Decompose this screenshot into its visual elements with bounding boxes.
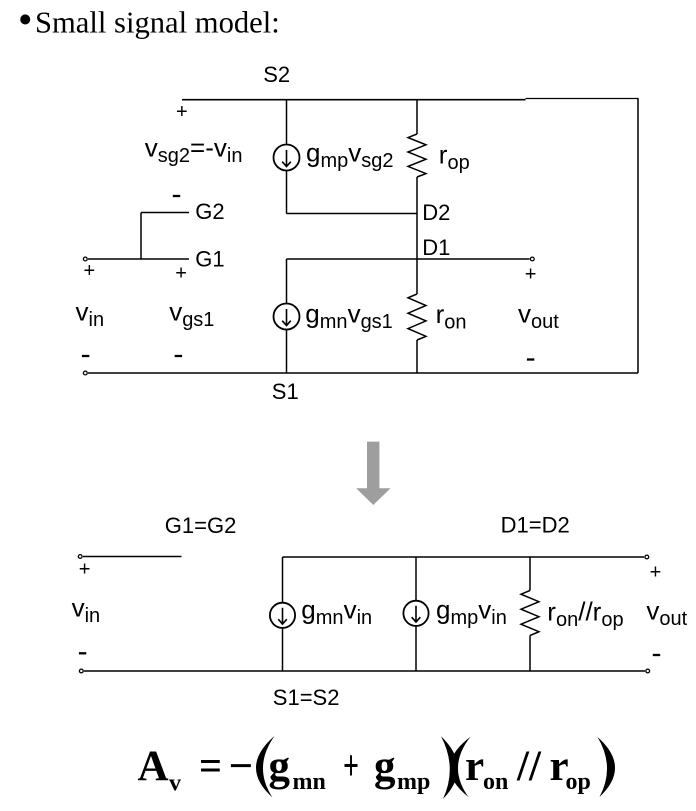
wire: G2 lead	[141, 212, 189, 214]
wire: circuit1 top rail S2 right	[526, 98, 639, 100]
resistor ron//rop	[521, 591, 539, 636]
wire: gmp source bottom lead	[286, 171, 288, 214]
svg-text:D1: D1	[422, 235, 450, 260]
svg-text:+: +	[343, 743, 359, 790]
svg-text:G1: G1	[195, 247, 224, 272]
svg-text:•: •	[18, 0, 33, 43]
svg-text:gmpvsg2: gmpvsg2	[306, 138, 394, 173]
svg-text:vsg2=-vin: vsg2=-vin	[145, 133, 243, 168]
svg-text:+: +	[79, 559, 91, 581]
svg-text:A: A	[138, 743, 169, 790]
svg-text:vin: vin	[72, 593, 101, 628]
wire: rop to D2 to D1 vertical	[416, 177, 418, 259]
svg-text:vout: vout	[518, 299, 559, 334]
wire: G1 lead	[88, 258, 189, 260]
svg-text:G1=G2: G1=G2	[165, 513, 237, 538]
wire: circuit1 top rail S2 left	[182, 99, 526, 101]
svg-text://: //	[516, 743, 542, 790]
big gray arrow down	[356, 442, 390, 505]
svg-text:g: g	[374, 743, 396, 790]
wire: gmp2 bottom lead	[415, 626, 417, 671]
terminal: circuit2 output top open circle	[645, 555, 649, 559]
wire: gmn source top lead	[286, 259, 288, 304]
current source gmp_vin	[403, 601, 428, 626]
wire: ron bottom lead	[416, 340, 418, 373]
svg-text:g: g	[269, 743, 291, 790]
svg-text:v: v	[169, 771, 181, 797]
svg-text:S1=S2: S1=S2	[273, 685, 340, 710]
wire: D1 horizontal to output	[287, 258, 530, 260]
terminal: circuit1 input open circle	[83, 257, 87, 261]
wire: ron//rop bottom lead	[529, 636, 531, 672]
svg-text:vgs1: vgs1	[169, 297, 214, 332]
svg-text:mp: mp	[397, 769, 430, 795]
svg-text:gmnvin: gmnvin	[301, 595, 372, 630]
svg-text:+: +	[175, 263, 187, 285]
title: Small signal model	[18, 0, 280, 43]
wire: circuit2 bottom rail	[84, 670, 645, 672]
wire: G2-G1 vertical tie	[140, 213, 142, 260]
resistor ron	[408, 294, 426, 340]
svg-text:G2: G2	[195, 199, 224, 224]
svg-text:r: r	[465, 743, 484, 790]
current source gmp_vsg2	[274, 145, 300, 171]
svg-text:op: op	[566, 769, 591, 795]
svg-text:Small signal model:: Small signal model:	[35, 6, 280, 40]
terminal: circuit1 bottom-left open circle	[83, 371, 87, 375]
terminal: circuit2 bottom-right open circle	[646, 669, 650, 673]
wire: circuit1 bottom rail S1	[88, 372, 638, 374]
svg-text:+: +	[525, 263, 537, 285]
wire: rop top lead	[416, 100, 418, 134]
wire: circuit1 right vertical	[637, 99, 639, 374]
minus sign under vin	[82, 355, 89, 357]
svg-text:on: on	[483, 769, 508, 795]
svg-text:+: +	[650, 562, 662, 584]
terminal: vout open circle circuit1	[530, 257, 534, 261]
wire: gmn2 top lead	[282, 557, 284, 603]
svg-text:vin: vin	[76, 297, 105, 332]
svg-text:mn: mn	[293, 769, 326, 795]
wire: gmp source top lead	[286, 100, 288, 145]
equation Av = -(gmn+gmp)(ron//rop)	[138, 736, 616, 799]
svg-text:vout: vout	[646, 596, 687, 631]
svg-text:rop: rop	[439, 140, 470, 175]
terminal: circuit2 bottom-left open circle	[79, 669, 83, 673]
svg-text:gmnvgs1: gmnvgs1	[305, 299, 393, 334]
minus sign under vgs1	[175, 355, 182, 357]
current source gmn_vgs1	[274, 304, 300, 330]
minus sign above G2	[173, 195, 180, 197]
minus sign vout circuit1	[527, 358, 534, 360]
svg-text:ron: ron	[436, 299, 467, 334]
svg-text:D2: D2	[422, 200, 450, 225]
svg-text:S1: S1	[272, 379, 299, 404]
minus sign circuit2 input	[79, 652, 86, 654]
svg-text:+: +	[176, 101, 188, 123]
svg-text:=: =	[199, 743, 222, 790]
current source gmn_vin	[270, 603, 295, 628]
wire: circuit2 input top lead	[83, 556, 182, 558]
svg-text:−: −	[229, 743, 254, 790]
wire: gmp2 top lead	[415, 557, 417, 601]
svg-text:gmpvin: gmpvin	[436, 595, 507, 630]
svg-text:+: +	[84, 260, 96, 282]
wire: gmn2 bottom lead	[282, 628, 284, 671]
resistor rop	[408, 134, 426, 177]
wire: ron//rop top lead	[529, 557, 531, 591]
terminal: circuit2 input top open circle	[78, 555, 82, 559]
svg-text:ron//rop: ron//rop	[547, 597, 623, 632]
wire: circuit2 top rail	[283, 556, 645, 558]
svg-text:S2: S2	[263, 62, 290, 87]
minus sign circuit2 output	[653, 654, 660, 656]
wire: D1 to ron lead	[416, 259, 418, 294]
svg-text:D1=D2: D1=D2	[501, 513, 570, 538]
wire: gmn source bottom lead	[286, 330, 288, 374]
wire: D2 horizontal	[287, 213, 418, 215]
